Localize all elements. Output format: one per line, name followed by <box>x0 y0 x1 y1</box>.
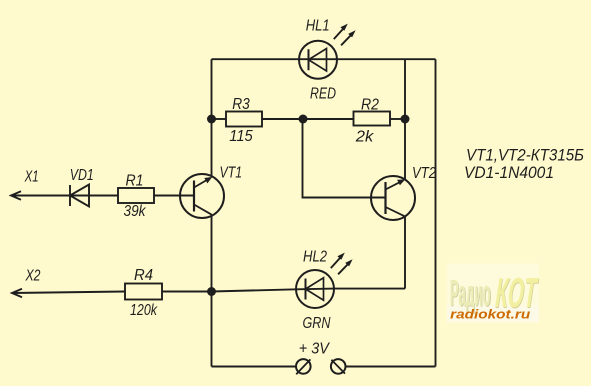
HL2 light arrow 1 <box>331 256 342 268</box>
resistor R2 <box>354 112 391 126</box>
svg-text:RED: RED <box>310 86 336 103</box>
wire bottom left segment to battery terminal 1 <box>212 366 297 368</box>
wire through HL2 <box>297 288 335 291</box>
svg-text:39k: 39k <box>124 203 147 220</box>
wire left rail lower (VT1 emitter down to bottom corner) <box>211 215 213 367</box>
HL1 light arrow 2 <box>341 33 353 45</box>
svg-text:VT2: VT2 <box>412 165 436 182</box>
svg-text:HL1: HL1 <box>306 18 330 35</box>
svg-text:115: 115 <box>229 128 253 145</box>
svg-text:GRN: GRN <box>303 315 331 332</box>
diode VD1 <box>70 185 89 207</box>
wire right rail <box>435 59 437 366</box>
logo word КОТ <box>492 269 541 318</box>
svg-text:radiokot.ru: radiokot.ru <box>450 307 530 322</box>
wire R4 to node D <box>162 291 212 293</box>
wire R2 right lead to node C <box>390 118 405 120</box>
svg-text:VT1: VT1 <box>220 165 243 182</box>
svg-text:HL2: HL2 <box>303 249 327 266</box>
transistor VT2 <box>371 176 415 220</box>
battery terminal T2 <box>331 359 346 374</box>
svg-text:VD1-1N4001: VD1-1N4001 <box>464 164 554 182</box>
wire VT2 emitter down <box>404 216 406 288</box>
wire node D to HL2 <box>212 289 297 291</box>
resistor R1 <box>118 188 154 203</box>
LED HL1 <box>299 41 337 79</box>
wire top rail from left rail through HL1 to right rail <box>212 58 436 60</box>
wire R3 right lead to node B <box>262 118 303 120</box>
svg-text:2k: 2k <box>355 129 375 146</box>
svg-text:R2: R2 <box>361 97 379 114</box>
svg-text:R1: R1 <box>126 173 144 190</box>
svg-text:VT1,VT2-КТ315Б: VT1,VT2-КТ315Б <box>466 147 584 165</box>
wire node C up to top rail <box>404 59 406 119</box>
svg-text:+ 3V: + 3V <box>299 341 330 358</box>
wire left rail upper (top corner down to VT1 collector) <box>211 59 213 177</box>
connector X2 arrowhead <box>12 289 22 298</box>
connector X1 arrowhead <box>11 191 21 200</box>
svg-text:VD1: VD1 <box>70 167 94 184</box>
node C junction dot (R2 right) <box>401 115 410 124</box>
wire X2 line to R4 <box>12 292 125 294</box>
node A junction dot (left rail / R3) <box>207 115 216 124</box>
wire X1 line through VD1 to R1 <box>11 195 118 197</box>
logo word Радио <box>450 269 541 322</box>
wire bottom right segment from battery terminal 2 <box>346 366 436 368</box>
HL1 light arrow 1 <box>334 27 345 39</box>
transistor VT1 <box>180 174 224 218</box>
wire HL2 to VT2 emitter line <box>334 288 405 290</box>
resistor R3 <box>226 112 262 127</box>
watermark logo panel <box>447 264 539 324</box>
wire R2 left lead <box>303 118 354 120</box>
node D junction dot (R4 / HL2 / left rail) <box>207 287 216 296</box>
svg-text:X1: X1 <box>24 169 39 186</box>
svg-text:X2: X2 <box>25 268 41 285</box>
battery terminal T1 <box>296 359 311 374</box>
svg-text:120k: 120k <box>130 302 158 319</box>
svg-text:R3: R3 <box>232 96 250 113</box>
wire node C down to VT2 collector <box>404 119 406 180</box>
HL2 light arrow 2 <box>338 262 350 274</box>
svg-text:R4: R4 <box>134 267 153 284</box>
LED HL2 <box>296 270 334 308</box>
wire R1 to VT1 base <box>154 195 194 197</box>
resistor R4 <box>125 284 162 300</box>
wire R3 left lead <box>212 118 227 120</box>
node B junction dot (R3/R2/VT2 base) <box>299 115 308 124</box>
wire VT2 base from node B <box>303 119 386 198</box>
